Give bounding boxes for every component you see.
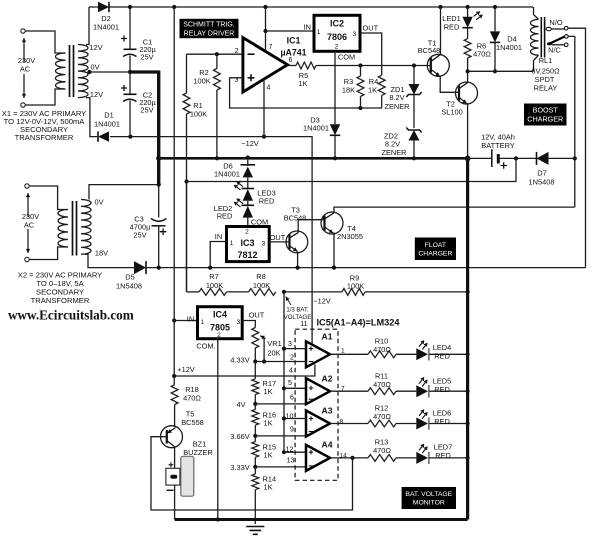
svg-text:TRANSFORMER: TRANSFORMER xyxy=(15,133,74,142)
svg-text:SL100: SL100 xyxy=(441,108,462,117)
op-amp A4 xyxy=(306,445,330,471)
wire T3 collector to T4 base xyxy=(298,216,323,233)
230V AC label X2 xyxy=(27,193,29,217)
svg-text:IN: IN xyxy=(304,23,311,32)
svg-text:1N4001: 1N4001 xyxy=(93,23,119,32)
node C2 D1 -12V junction xyxy=(128,135,132,139)
svg-text:18K: 18K xyxy=(342,86,355,95)
wire battery sense line xyxy=(187,158,517,181)
svg-text:CHARGER: CHARGER xyxy=(527,115,563,124)
svg-text:18V: 18V xyxy=(95,249,108,258)
svg-text:RELAY DRIVER: RELAY DRIVER xyxy=(184,30,235,37)
wire IC3 IN xyxy=(210,242,226,268)
resistor R3 xyxy=(360,66,362,77)
op-amp A2 xyxy=(306,378,330,404)
resistor R9 xyxy=(284,291,342,293)
svg-text:4: 4 xyxy=(267,85,271,92)
wire N/O to right bus xyxy=(568,28,586,267)
wire D7 to relay pole drop xyxy=(549,157,575,159)
svg-text:3: 3 xyxy=(237,319,241,326)
transistor T4 2N3055 xyxy=(321,212,343,234)
wire IC2 COM column xyxy=(334,51,336,124)
transformer X1 primary winding xyxy=(55,53,65,89)
svg-text:RL1: RL1 xyxy=(539,56,553,65)
wire D4 top lead xyxy=(494,7,496,31)
wire IC1 pin4 to -12V xyxy=(263,79,265,137)
svg-text:2: 2 xyxy=(217,332,221,339)
wire T1 collector xyxy=(440,7,442,54)
svg-text:RED: RED xyxy=(217,212,233,221)
node R3 bottom xyxy=(358,106,362,110)
-12V line xyxy=(110,137,312,344)
svg-text:OUT: OUT xyxy=(249,311,265,320)
svg-text:100K: 100K xyxy=(190,110,207,119)
thick ground bus vertical xyxy=(466,157,469,520)
svg-text:BOOST: BOOST xyxy=(533,106,559,115)
svg-text:3.66V: 3.66V xyxy=(230,432,249,441)
svg-text:IC4: IC4 xyxy=(213,310,227,320)
wire +12V supply column xyxy=(173,7,175,376)
svg-text:A1: A1 xyxy=(322,332,333,342)
wire C2 top lead xyxy=(129,72,131,94)
diode D5 xyxy=(134,261,146,274)
wire IC1 pin3 input path xyxy=(230,78,382,108)
svg-text:1K: 1K xyxy=(264,451,273,460)
LED LED3 xyxy=(247,177,249,188)
SCHMITT TRIG RELAY DRIVER label box xyxy=(180,19,239,38)
svg-text:−12V: −12V xyxy=(241,139,259,148)
svg-text:1K: 1K xyxy=(264,387,273,396)
diode D3 xyxy=(330,124,340,135)
svg-text:1N4001: 1N4001 xyxy=(94,120,120,129)
svg-text:20K: 20K xyxy=(267,349,280,358)
regulator IC2 7806 xyxy=(314,15,360,51)
wire T2 collector riser xyxy=(467,71,469,82)
svg-text:CHARGER: CHARGER xyxy=(418,250,452,257)
svg-text:8: 8 xyxy=(340,419,344,426)
svg-text:−12V: −12V xyxy=(313,297,331,306)
svg-text:IC5(A1–A4)=LM324: IC5(A1–A4)=LM324 xyxy=(317,318,401,328)
svg-text:3: 3 xyxy=(288,341,292,348)
svg-text:0V: 0V xyxy=(90,63,99,72)
svg-text:N/C: N/C xyxy=(548,46,561,55)
relay RL1 coil xyxy=(530,19,538,55)
ground symbol xyxy=(246,527,264,535)
svg-text:12V: 12V xyxy=(90,90,103,99)
svg-text:470Ω: 470Ω xyxy=(373,345,391,354)
svg-text:100K: 100K xyxy=(193,77,210,86)
svg-text:1: 1 xyxy=(230,240,234,247)
wire battery sense column xyxy=(283,292,285,452)
node IC2 IN branch xyxy=(263,29,267,33)
node ZD2 ground xyxy=(412,156,416,160)
svg-text:IC2: IC2 xyxy=(330,19,344,29)
wire 0V tap to C1C2 node xyxy=(90,71,131,73)
svg-text:1K: 1K xyxy=(298,79,307,88)
svg-text:BC558: BC558 xyxy=(181,418,204,427)
node one-third battery voltage xyxy=(282,290,286,294)
svg-text:1N4001: 1N4001 xyxy=(214,170,240,179)
wire X2 18V tap xyxy=(85,254,135,267)
svg-text:11: 11 xyxy=(300,321,307,328)
svg-text:1N4001: 1N4001 xyxy=(303,124,329,133)
output row A3: resistor R12 and LED LED6 xyxy=(330,423,368,425)
node 3.33V tap xyxy=(253,465,257,469)
node IC4 COM ground xyxy=(216,517,220,521)
svg-text:1K: 1K xyxy=(368,86,377,95)
transformer X1 secondary winding xyxy=(78,45,88,98)
svg-text:OUT: OUT xyxy=(363,24,379,33)
output row A2: resistor R11 and LED LED5 xyxy=(330,390,368,392)
transistor T2 SL100 xyxy=(456,82,478,104)
node LED1 column top xyxy=(466,5,470,9)
svg-text:1N5408: 1N5408 xyxy=(116,282,142,291)
node 4.33V xyxy=(253,359,257,363)
thick 0V bus horizontal xyxy=(129,70,159,73)
zener ZD1 xyxy=(413,66,415,85)
wire X1 secondary bottom to D1 xyxy=(86,98,97,137)
resistor R17 xyxy=(254,362,256,379)
node D4 column top xyxy=(493,5,497,9)
svg-text:MONITOR: MONITOR xyxy=(413,500,445,507)
svg-text:BAT. VOLTAGE: BAT. VOLTAGE xyxy=(405,491,452,498)
svg-text:2: 2 xyxy=(335,44,339,51)
resistor R16 xyxy=(252,410,259,426)
resistor R8 xyxy=(227,291,249,293)
LED LED1 xyxy=(462,17,472,28)
X1 input terminal bottom xyxy=(21,103,25,107)
node ZD1 top xyxy=(412,63,416,67)
svg-text:1: 1 xyxy=(201,319,205,326)
wire C1 bottom lead xyxy=(129,56,131,73)
wire IC3 OUT to T3 xyxy=(269,241,289,243)
svg-text:9: 9 xyxy=(290,426,294,433)
svg-text:COM.: COM. xyxy=(196,342,215,351)
node C1 top xyxy=(128,5,132,9)
svg-text:OUT: OUT xyxy=(270,233,286,242)
wire IC4 COM column xyxy=(217,339,219,520)
svg-text:1K: 1K xyxy=(264,483,273,492)
svg-text:FLOAT: FLOAT xyxy=(425,242,446,249)
battery BT1 12V 40Ah xyxy=(491,149,493,167)
svg-text:470Ω: 470Ω xyxy=(373,446,391,455)
capacitor C3 xyxy=(158,185,160,218)
node R1 battery sense junction xyxy=(184,179,188,183)
wire A4 pin12 stub xyxy=(284,451,306,453)
svg-text:RED: RED xyxy=(434,352,450,361)
resistor R6 xyxy=(467,28,469,39)
node +12V column top xyxy=(172,5,176,9)
capacitor C1 xyxy=(124,48,137,50)
230V AC label X1 xyxy=(23,38,25,62)
svg-text:IC1: IC1 xyxy=(287,36,301,46)
node A2 pin5 xyxy=(282,386,286,390)
svg-text:IC3: IC3 xyxy=(240,238,254,248)
svg-text:12V: 12V xyxy=(89,43,102,52)
svg-text:3: 3 xyxy=(262,241,266,248)
svg-text:1K: 1K xyxy=(264,419,273,428)
svg-text:www.Ecircuitslab.com: www.Ecircuitslab.com xyxy=(8,308,134,323)
svg-text:D1: D1 xyxy=(104,111,113,120)
BOOST CHARGER label box xyxy=(524,104,567,126)
svg-text:5: 5 xyxy=(288,380,292,387)
wire R5 to T1 base xyxy=(316,65,431,67)
resistor R4 xyxy=(378,75,385,95)
wire T2 emitter to battery node xyxy=(466,104,469,159)
1/3 BAT VOLTAGE annotation xyxy=(286,297,291,306)
svg-text:RED: RED xyxy=(259,197,275,206)
svg-text:1N5408: 1N5408 xyxy=(529,178,555,187)
wire VR1 bottom xyxy=(254,348,256,362)
svg-text:7805: 7805 xyxy=(210,323,230,333)
node A4 pin12 xyxy=(282,450,286,454)
wire X1 secondary top to rail xyxy=(86,7,89,45)
wire A2 pin6 line xyxy=(255,403,306,405)
svg-text:13: 13 xyxy=(287,458,295,465)
svg-text:SCHMITT TRIG.: SCHMITT TRIG. xyxy=(183,22,235,29)
diode D6 xyxy=(247,158,249,166)
svg-text:BC548: BC548 xyxy=(284,214,307,223)
wire relay pole to battery line xyxy=(568,36,575,207)
svg-text:µA741: µA741 xyxy=(280,48,306,58)
svg-text:A4: A4 xyxy=(322,440,333,450)
preset VR1 20K xyxy=(252,328,259,349)
wire X2 0V tap xyxy=(89,185,159,200)
wire T3 emitter xyxy=(297,251,299,267)
relay N/O contact xyxy=(546,27,551,30)
diode D4 xyxy=(490,31,500,42)
top supply rail xyxy=(89,6,533,8)
svg-text:7: 7 xyxy=(269,44,273,51)
svg-text:A3: A3 xyxy=(322,406,333,416)
svg-text:2N3055: 2N3055 xyxy=(337,232,363,241)
output row A4: resistor R13 and LED LED7 xyxy=(330,457,368,459)
svg-text:D5: D5 xyxy=(125,273,134,282)
svg-text:470Ω: 470Ω xyxy=(473,50,491,59)
node R2 bottom ground xyxy=(215,156,219,160)
node +12V junction xyxy=(172,374,176,378)
LED LED2 xyxy=(247,201,249,205)
svg-text:100K: 100K xyxy=(206,281,223,290)
svg-text:1: 1 xyxy=(317,29,321,36)
svg-text:470Ω: 470Ω xyxy=(373,380,391,389)
svg-text:N/O: N/O xyxy=(549,18,562,27)
diode D1 xyxy=(98,131,109,141)
svg-text:TRANSFORMER: TRANSFORMER xyxy=(31,296,90,305)
svg-text:6: 6 xyxy=(289,57,293,64)
op-amp IC1 uA741 xyxy=(243,38,288,92)
svg-text:BUZZER: BUZZER xyxy=(183,448,213,457)
transformer X2 secondary winding xyxy=(81,199,91,254)
wire IC2 IN xyxy=(266,30,315,32)
wire IC4 OUT to VR1 xyxy=(242,321,255,328)
thick 0V bus vertical xyxy=(157,71,160,185)
svg-text:12: 12 xyxy=(286,447,294,454)
node battery plus xyxy=(514,156,518,160)
wire A2 pin5 stub xyxy=(284,387,306,389)
svg-text:25V: 25V xyxy=(140,106,153,115)
node D6 top ground rail xyxy=(246,155,250,159)
wire T4 emitter xyxy=(333,233,336,267)
X1 0V node xyxy=(87,70,91,74)
node IC1 pin7 riser top xyxy=(263,5,267,9)
svg-text:RED: RED xyxy=(444,23,460,32)
wire IC2 OUT to R4 xyxy=(360,33,382,75)
wire A1 pin3 stub xyxy=(284,348,306,350)
output row A1: resistor R10 and LED LED4 xyxy=(330,353,368,355)
svg-text:R8: R8 xyxy=(256,272,265,281)
node X2 0V thick bus junction xyxy=(157,183,161,187)
wire T1 emitter to T2 base xyxy=(440,76,458,92)
wire T4 collector xyxy=(334,207,575,213)
resistor R2 xyxy=(216,54,218,68)
svg-text:ZENER: ZENER xyxy=(381,148,406,157)
FLOAT CHARGER label box xyxy=(415,238,456,261)
op-amp A3 xyxy=(306,411,330,437)
node D3 ground xyxy=(333,156,337,160)
node IC3 IN junction xyxy=(208,266,212,270)
wire LED2 to IC3 xyxy=(247,218,249,227)
resistor R14 xyxy=(252,474,259,490)
X2 input terminal bottom xyxy=(25,257,29,261)
node T4 emitter bus xyxy=(332,266,336,270)
wire A3 pin9 line xyxy=(255,435,306,437)
svg-text:IN: IN xyxy=(187,315,194,324)
wire battery minus lead xyxy=(468,157,492,159)
svg-text:RED: RED xyxy=(435,451,451,460)
node T3 emitter bus xyxy=(296,266,300,270)
op-amp A1 xyxy=(306,341,330,367)
svg-text:4: 4 xyxy=(289,368,293,375)
node IC4 IN junction xyxy=(172,318,176,322)
svg-text:2: 2 xyxy=(290,355,294,362)
ground rail boost section xyxy=(159,157,468,160)
svg-text:3: 3 xyxy=(353,31,357,38)
svg-text:470Ω: 470Ω xyxy=(373,412,391,421)
transistor T1 BC548 xyxy=(427,54,449,76)
resistor R18 xyxy=(173,376,175,385)
node C3 bottom xyxy=(157,266,161,270)
node pin4 -12V junction xyxy=(262,135,266,139)
node R2 top xyxy=(215,52,219,56)
svg-text:7812: 7812 xyxy=(237,250,257,260)
buzzer BZ1 xyxy=(181,456,194,496)
wire battery plus to D7 xyxy=(498,157,536,159)
wire T5 collector to buzzer xyxy=(174,447,176,469)
wire A3 pin10 stub xyxy=(284,418,306,420)
svg-text:10: 10 xyxy=(286,414,294,421)
wire IC1 pin2 line xyxy=(187,53,243,55)
transistor T5 BC558 xyxy=(161,426,183,448)
wire LED1 top lead xyxy=(467,7,469,17)
wire D4 bottom lead xyxy=(494,42,496,71)
svg-text:R7: R7 xyxy=(209,272,218,281)
svg-text:RED: RED xyxy=(434,385,450,394)
transistor T3 BC548 xyxy=(286,231,308,253)
node VR1 wiper junction xyxy=(262,359,266,363)
relay core xyxy=(541,17,544,58)
wire +12V rail xyxy=(174,365,315,377)
node 3.66V tap xyxy=(253,434,257,438)
svg-text:+12V: +12V xyxy=(177,365,195,374)
wire C1 top lead xyxy=(129,7,131,49)
node D4 bottom xyxy=(493,69,497,73)
svg-text:AC: AC xyxy=(24,221,35,230)
diode D7 xyxy=(537,152,549,165)
node A3 pin10 xyxy=(282,416,286,420)
capacitor C2 xyxy=(124,93,137,95)
svg-text:COM: COM xyxy=(338,53,355,62)
svg-text:6: 6 xyxy=(290,394,294,401)
svg-text:8.2V: 8.2V xyxy=(389,93,404,102)
svg-text:4.33V: 4.33V xyxy=(230,356,249,365)
wire IC1 pin7 riser xyxy=(265,7,267,51)
diode D2 xyxy=(98,2,109,12)
svg-text:ZENER: ZENER xyxy=(384,102,409,111)
svg-text:A2: A2 xyxy=(322,374,333,384)
resistor R7 xyxy=(187,291,200,293)
wire A1 pin2 line xyxy=(255,361,306,363)
svg-text:BC548: BC548 xyxy=(418,46,441,55)
svg-text:2: 2 xyxy=(245,229,249,236)
float supply bus xyxy=(146,267,586,269)
wire buzzer to ground rail xyxy=(174,485,176,519)
svg-text:RELAY: RELAY xyxy=(534,84,558,93)
svg-text:2: 2 xyxy=(235,48,239,55)
wire D3 to ground rail xyxy=(334,135,336,158)
node R9 ground xyxy=(466,290,470,294)
resistor R15 xyxy=(252,442,259,458)
zener ZD2 xyxy=(409,130,420,141)
resistor R5 xyxy=(296,62,316,69)
transformer X2 core xyxy=(73,201,77,256)
wire IC4 IN xyxy=(174,320,197,322)
node D7 relay pole junction xyxy=(573,156,577,160)
regulator IC4 7805 xyxy=(198,307,243,339)
wire relay coil bottom line xyxy=(468,70,534,72)
node R3 top xyxy=(358,63,362,67)
node R6 T2 D4 junction xyxy=(466,69,470,73)
relay N/C contact xyxy=(552,44,565,46)
svg-text:0V: 0V xyxy=(94,198,103,207)
svg-text:VR1: VR1 xyxy=(267,339,281,348)
svg-text:470Ω: 470Ω xyxy=(183,394,201,403)
svg-text:4V: 4V xyxy=(236,400,245,409)
node A1 pin3 xyxy=(282,347,286,351)
svg-text:1: 1 xyxy=(341,348,345,355)
wire T5 base line xyxy=(151,437,353,510)
svg-text:25V: 25V xyxy=(133,231,146,240)
svg-text:7806: 7806 xyxy=(327,32,347,42)
node 4V tap xyxy=(253,402,257,406)
svg-text:IN: IN xyxy=(215,232,222,241)
wire R1 column to R7 xyxy=(186,182,188,292)
node battery minus ground xyxy=(465,156,471,162)
regulator IC3 7812 xyxy=(227,227,270,262)
relay armature xyxy=(547,42,552,45)
svg-text:BATTERY: BATTERY xyxy=(481,141,514,150)
BAT VOLTAGE MONITOR label box xyxy=(402,487,456,509)
transformer X2 primary winding xyxy=(58,210,68,248)
svg-text:1/3 BAT.: 1/3 BAT. xyxy=(286,308,309,314)
svg-text:25V: 25V xyxy=(140,53,153,62)
X2 input terminal top xyxy=(25,184,29,188)
svg-text:RED: RED xyxy=(434,417,450,426)
node A4 output branch xyxy=(350,456,354,460)
wire C2 bottom lead xyxy=(129,101,131,137)
svg-text:D7: D7 xyxy=(537,169,546,178)
transformer X1 core xyxy=(70,45,74,97)
